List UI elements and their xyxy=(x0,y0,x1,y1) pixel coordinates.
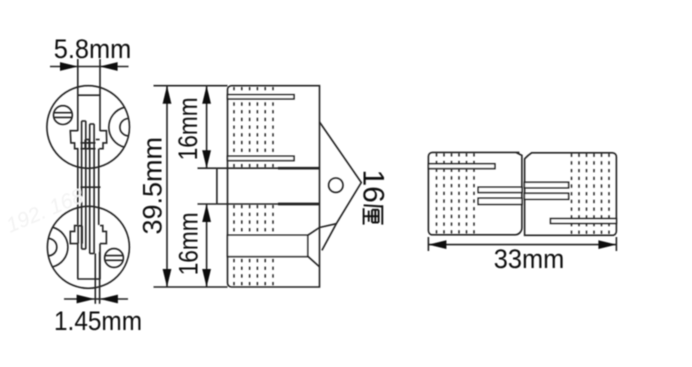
bottom cam notch outer arc xyxy=(52,227,68,267)
slot line outer extension xyxy=(99,252,101,304)
dimension line 16mm bottom xyxy=(206,204,208,287)
bottom screw slot xyxy=(105,255,123,257)
extension line bottom xyxy=(154,286,228,288)
bottom circle body xyxy=(47,206,129,288)
arrow 16b down xyxy=(202,269,211,287)
dimension line 16mm top xyxy=(206,86,208,169)
top block pin bar 1 xyxy=(228,95,295,99)
top block pin bar 2 xyxy=(228,156,295,160)
pin joint ticks xyxy=(81,142,96,144)
pin A xyxy=(81,121,83,249)
pointer bracket xyxy=(320,122,362,250)
short bar caps top xyxy=(85,139,89,141)
arrow 39.5 up xyxy=(163,86,172,104)
arrow 1.45mm right xyxy=(100,295,118,304)
screw head flare xyxy=(308,228,320,236)
left half slot xyxy=(428,164,495,169)
bottom cam notch inner arc xyxy=(48,238,57,255)
dimension line 33mm xyxy=(428,244,616,246)
arrow 33 left xyxy=(428,240,446,249)
block divider top xyxy=(217,167,278,169)
svg-text:16mm: 16mm xyxy=(173,97,203,160)
arrow 39.5 down xyxy=(163,269,172,287)
extension line top xyxy=(154,85,228,87)
top circle body xyxy=(47,86,130,169)
arrow 16t up xyxy=(202,86,211,104)
top cam notch outer arc xyxy=(109,107,125,147)
svg-text:1.45mm: 1.45mm xyxy=(54,306,142,336)
right half pin lower xyxy=(524,193,568,199)
arrow 33 right xyxy=(598,240,616,249)
extension line tab right xyxy=(99,59,101,131)
block divider top bold xyxy=(278,167,320,170)
pin B xyxy=(89,124,91,254)
svg-text:33mm: 33mm xyxy=(494,244,565,274)
screw shaft xyxy=(228,235,308,256)
arrow 16b up xyxy=(202,204,211,222)
right half slot xyxy=(551,219,617,224)
assembly right half body xyxy=(525,153,617,236)
dimension line 5.8mm xyxy=(50,66,129,68)
arrow 16t down xyxy=(202,150,211,168)
pointer hole xyxy=(329,178,343,192)
extension line 33 left xyxy=(427,237,429,251)
slot line inner xyxy=(94,254,96,304)
top flange xyxy=(70,131,78,149)
neck right edge xyxy=(98,149,100,225)
bottom flange xyxy=(70,226,78,244)
extension line 16 bottom xyxy=(198,203,217,205)
arrow 1.45mm left xyxy=(77,295,95,304)
top cam notch inner arc xyxy=(120,119,129,136)
knurl dashes right half xyxy=(571,154,573,235)
extension line 16 top xyxy=(198,167,217,169)
top tab xyxy=(78,94,100,96)
label 16mm-diameter (16厘) rotated xyxy=(357,170,390,225)
svg-text:16mm: 16mm xyxy=(174,212,204,275)
right half pin upper xyxy=(524,182,568,188)
neck left edge xyxy=(77,149,79,225)
top screw slot xyxy=(54,112,72,114)
left half pin upper xyxy=(478,187,522,192)
left half pin lower xyxy=(478,198,522,204)
pointer inner line xyxy=(320,224,337,228)
block divider bottom xyxy=(217,203,278,205)
dimension line 1.45mm xyxy=(64,298,128,300)
top screw head xyxy=(54,106,73,125)
assembly left half body xyxy=(428,152,522,234)
left lug xyxy=(216,168,218,204)
extension line 33 right xyxy=(615,237,617,251)
extension line tab left xyxy=(77,59,79,131)
short bar caps bottom xyxy=(78,225,82,227)
bottom screw head xyxy=(105,249,124,268)
svg-text:39.5mm: 39.5mm xyxy=(138,137,168,235)
arrow 5.8mm right xyxy=(100,62,118,71)
knurl dashes bottom block xyxy=(233,205,235,286)
dimension line 39.5mm xyxy=(166,86,168,287)
arrow 5.8mm left xyxy=(60,62,78,71)
knurl dashes left half xyxy=(436,153,438,234)
bottom tab bottom edge xyxy=(77,278,100,280)
svg-text:5.8mm: 5.8mm xyxy=(54,34,132,64)
bottom tab sides xyxy=(77,244,79,279)
block divider bottom bold xyxy=(278,203,320,206)
knurl dashes top block xyxy=(233,87,235,168)
neck joint line xyxy=(81,186,101,188)
svg-text:16: 16 xyxy=(357,170,390,203)
middle body outline xyxy=(228,86,320,287)
